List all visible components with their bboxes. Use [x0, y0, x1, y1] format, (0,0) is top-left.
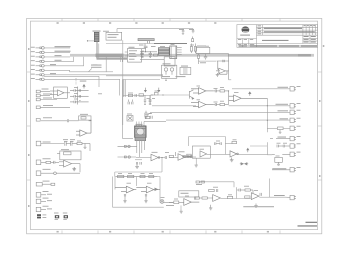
- title block dark text rows: [264, 28, 302, 29]
- cluster on wire y128: [278, 127, 284, 133]
- junction dots lamp wire: [169, 202, 170, 203]
- opamp1 bottom: [115, 186, 136, 193]
- revision rows: [257, 26, 318, 28]
- module pins below: [137, 141, 145, 157]
- dark glyph pair far bottom-left: [37, 214, 46, 218]
- junction dot mid row: [161, 157, 162, 158]
- resistor R on secondary wire: [139, 94, 144, 96]
- bottom-right corner text: [298, 222, 318, 227]
- op-amp lower mid-left: [76, 121, 91, 137]
- bus wire y=43.5: [106, 43, 154, 45]
- junction label mid: [148, 76, 185, 114]
- rc chains between opamps: [214, 89, 229, 106]
- secondary-side wire y95: [149, 90, 194, 104]
- logo cell: [237, 38, 257, 40]
- opamp2 bottom: [136, 186, 160, 193]
- two dark cap glyphs bottom-left: [55, 215, 68, 218]
- frame zone tick marks top band: [27, 18, 322, 233]
- small lower stubs: [36, 182, 55, 211]
- isolation barrier box: [123, 80, 161, 139]
- power arrow mid filter: [247, 148, 249, 152]
- transistor cluster boxes: [162, 65, 191, 78]
- left stubs 3x: [36, 90, 70, 108]
- junction dots mid op-amp row: [228, 90, 229, 91]
- op-amp 2: [230, 151, 239, 162]
- short stubs from bus band down: [121, 57, 123, 62]
- stubs bottom left of this chain: [195, 181, 297, 200]
- power arrow near U10: [249, 92, 251, 96]
- decoupling cluster left of U3: [140, 44, 158, 58]
- junction dot RN1 input: [87, 40, 88, 41]
- crystal Y1 bar: [138, 39, 154, 44]
- feedback RC box mid-left: [36, 116, 91, 122]
- bottom dense strip: [239, 45, 248, 46]
- resistor pair R near U5: [190, 37, 196, 54]
- output to left stub with testpoint: [36, 171, 80, 176]
- top rail: [117, 29, 193, 125]
- wire bundle from RN1 down: [87, 41, 99, 58]
- wire bus dark segment: [154, 43, 187, 45]
- IC U4 hatched: [158, 48, 169, 56]
- right grid columns: [302, 25, 304, 44]
- middle op-amps row: [191, 88, 267, 108]
- top rail with resistors: [113, 177, 164, 208]
- vertical caps below secondary wire: [144, 95, 152, 119]
- right stub connectors column: [290, 87, 296, 131]
- cap trio cluster: [70, 87, 89, 105]
- power-down arrows: [144, 88, 159, 92]
- frame zone tick marks bottom band: [61, 230, 63, 233]
- relay box K1: [196, 47, 229, 80]
- wires into module top: [137, 121, 167, 126]
- junction dots secondary wire: [151, 94, 152, 95]
- ground below U7: [216, 73, 219, 77]
- bottom-right opamp chain: [199, 179, 290, 199]
- approvals cells right: [303, 37, 318, 39]
- pad+circle wire pair left of module: [118, 145, 137, 158]
- power arrow: [83, 85, 85, 89]
- opamp3 + feedback box bottom middle: [184, 199, 200, 206]
- parts inside barrier box: [127, 94, 136, 121]
- module T1 dark block: [135, 124, 146, 141]
- input chain: [182, 156, 192, 158]
- frame zone tick marks side bands: [27, 71, 31, 73]
- feedback box + opamp: [57, 151, 81, 172]
- resistor network RN1: [93, 31, 101, 42]
- parts right of x=267 wire: [267, 145, 290, 166]
- logo mark: [240, 26, 250, 35]
- IC U3 box: [125, 49, 144, 63]
- scattered small value labels: [64, 44, 287, 199]
- IC U5: [170, 46, 182, 59]
- frame inner border: [31, 21, 318, 230]
- wire down from mid row to lower: [115, 172, 158, 177]
- input stub + dashes: [36, 160, 59, 165]
- parts on mid row: [135, 152, 191, 169]
- long wires to right stubs: [150, 89, 290, 132]
- RC pair above module right: [145, 116, 152, 119]
- wire long y74.9: [106, 76, 167, 81]
- right stubs (y 136-172): [270, 136, 296, 172]
- diode pair below: [240, 163, 248, 165]
- title block text streaks: [238, 25, 261, 45]
- wire from pin9 area across: [44, 76, 99, 87]
- frame zone numerals: [28, 22, 324, 232]
- op-amp U8 box: [50, 87, 70, 98]
- cells under logo: [237, 42, 257, 44]
- lamp + meter wire: [160, 200, 184, 204]
- box U6 below: [140, 57, 175, 66]
- gray bus ribbon: [70, 54, 314, 57]
- junction dots decoupling: [141, 51, 142, 52]
- connector pin wires staircase: [44, 48, 163, 96]
- frame outer border: [27, 18, 322, 233]
- IC U2 box: [106, 32, 122, 40]
- U5 pin stubs right: [177, 47, 182, 49]
- net labels near connector: [31, 46, 102, 79]
- cap C near top rail: [182, 31, 195, 35]
- connector J1: [36, 47, 45, 81]
- opamps mid row: [151, 154, 185, 161]
- op-amp U7: [217, 60, 229, 74]
- box with op-amp: [192, 146, 210, 167]
- wire y79.8 stub: [229, 79, 232, 81]
- ground below opamp: [72, 167, 76, 171]
- junction dot node feedback: [90, 120, 91, 121]
- caps above: [215, 141, 237, 145]
- title block outline: [237, 25, 318, 48]
